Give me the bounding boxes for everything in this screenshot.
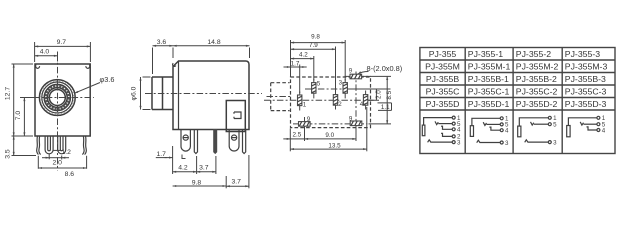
footprint top pads row axis <box>345 75 372 77</box>
svg-text:4: 4 <box>360 101 364 108</box>
side view bevel notch <box>173 63 176 66</box>
schematic 2 tip spring 3 <box>477 140 500 143</box>
svg-text:14.8: 14.8 <box>207 39 220 46</box>
schematic 2 pin 1 terminal <box>500 117 503 120</box>
footprint column axis pad1 <box>299 92 301 111</box>
side view boss contact window <box>234 112 241 119</box>
knurl texture outer <box>41 81 74 114</box>
dim 12.7 extensions <box>12 64 34 136</box>
svg-text:PJ-355B-2: PJ-355B-2 <box>516 74 557 84</box>
schematic 3 pin 5 terminal <box>548 123 551 126</box>
front view top-left corner notch <box>36 65 40 69</box>
side leg D <box>229 130 239 152</box>
schematic 1 pin 1 terminal <box>452 116 455 119</box>
svg-text:12.7: 12.7 <box>4 87 11 100</box>
dim 7.0 extension <box>22 97 39 99</box>
jack bushing ring 2 <box>42 82 73 113</box>
schematic 1 sleeve contact <box>422 125 425 136</box>
svg-text:4.2: 4.2 <box>299 51 308 58</box>
schematic 1 pin 5 terminal <box>452 122 455 125</box>
front leg S left <box>37 136 41 155</box>
footprint column axis pad9 top <box>355 72 357 128</box>
svg-text:φ6.0: φ6.0 <box>131 86 138 100</box>
front view body <box>35 64 90 136</box>
schematic 1 wire to pin 4 <box>441 126 452 129</box>
pad 5 <box>312 83 316 94</box>
svg-text:PJ-355C-1: PJ-355C-1 <box>468 86 510 96</box>
schematic 4 pin 1 terminal <box>597 116 600 119</box>
footprint column axis pad4 <box>365 91 367 110</box>
svg-text:PJ-355-2: PJ-355-2 <box>516 49 551 59</box>
side view body inner edge <box>178 62 180 130</box>
callout 8-(2.0x0.8) leader <box>358 72 369 75</box>
dim 4.0 <box>35 55 58 57</box>
side leg E <box>243 130 246 154</box>
footprint column axis pad9 bottom-left <box>304 117 306 130</box>
schematic 3 sleeve contact <box>518 126 521 137</box>
schematic 1 wire to pin 5 <box>438 123 452 125</box>
footprint center row axis <box>264 99 375 101</box>
schematic 1 switch contact 5 <box>435 121 438 124</box>
svg-text:7.0: 7.0 <box>15 111 22 121</box>
svg-text:5: 5 <box>553 122 557 129</box>
schematic 4 wire to pin 1 <box>568 118 596 126</box>
dim 3.5 extension <box>12 155 37 157</box>
side view boss <box>226 101 245 132</box>
pad 9 bottom-right <box>350 121 362 126</box>
svg-text:4.2: 4.2 <box>178 165 188 172</box>
dim 9.7 <box>35 45 91 47</box>
svg-text:3: 3 <box>339 79 343 86</box>
schematic 3 pin 3 terminal <box>548 141 551 144</box>
callout phi3.6 leader <box>75 83 101 94</box>
schematic 2 switch contact 5 <box>483 122 486 125</box>
svg-text:3: 3 <box>553 139 557 146</box>
schematic 1 pin 4 terminal <box>452 128 455 131</box>
svg-text:5: 5 <box>317 81 321 88</box>
schematic 3 wire to pin 5 <box>534 123 548 125</box>
schematic 2 pin 4 terminal <box>500 129 503 132</box>
pad 1 <box>298 95 302 106</box>
dim 4.2 side <box>196 156 198 174</box>
schematic 2 sleeve contact <box>470 126 473 137</box>
table column lines <box>465 48 562 154</box>
svg-text:2.5: 2.5 <box>293 132 302 139</box>
svg-text:3.7: 3.7 <box>199 165 209 172</box>
dim 8.5 fp <box>386 76 388 124</box>
svg-text:8.6: 8.6 <box>65 171 75 178</box>
schematic 1 pin 3 terminal <box>452 141 455 144</box>
dim 8.6 extensions <box>38 156 86 169</box>
svg-text:13.5: 13.5 <box>328 142 341 149</box>
schematic 3 pin 1 terminal <box>548 116 551 119</box>
dim 3.7 side <box>215 156 217 174</box>
schematic 3 wire to pin 1 <box>519 118 548 126</box>
svg-text:PJ-355D-1: PJ-355D-1 <box>468 99 510 109</box>
svg-text:9: 9 <box>307 116 311 123</box>
svg-text:PJ-355D: PJ-355D <box>426 99 460 109</box>
svg-text:1.7: 1.7 <box>291 61 300 68</box>
schematic 2 wire to pin 4 <box>489 127 500 130</box>
body face extension line <box>172 146 174 174</box>
svg-text:1.2: 1.2 <box>62 149 72 156</box>
svg-text:9.7: 9.7 <box>57 39 67 46</box>
svg-text:PJ-355C-3: PJ-355C-3 <box>565 86 607 96</box>
svg-text:1.1: 1.1 <box>381 104 390 111</box>
side leg A hole <box>183 135 188 140</box>
side leg B <box>194 130 197 154</box>
svg-text:9.8: 9.8 <box>311 34 320 41</box>
knurl texture inner <box>46 86 69 109</box>
table row lines <box>420 60 615 110</box>
schematic 2 pin 3 terminal <box>500 141 503 144</box>
svg-text:8.5: 8.5 <box>386 90 393 99</box>
dim 8.6 <box>38 167 86 169</box>
front leg U1 <box>45 136 53 154</box>
svg-text:4: 4 <box>505 128 509 135</box>
schematic 2 wire to pin 5 <box>487 123 501 125</box>
svg-text:PJ-355-3: PJ-355-3 <box>565 49 600 59</box>
jack bushing outer circle <box>39 80 75 116</box>
dim 12.7 <box>13 64 15 136</box>
svg-text:PJ-355B-1: PJ-355B-1 <box>468 74 509 84</box>
dim 2.0 fp <box>375 89 377 100</box>
dim phi6.0 <box>140 77 142 110</box>
schematic 2 pin 5 terminal <box>500 123 503 126</box>
side leg A <box>181 130 190 152</box>
dim 13.5 fp <box>366 107 368 151</box>
svg-text:PJ-355M-1: PJ-355M-1 <box>468 61 511 71</box>
pad 3 <box>343 83 347 94</box>
front leg S right <box>82 136 86 155</box>
schematic 1 wire to pin 2 <box>441 133 452 136</box>
svg-text:PJ-355D-3: PJ-355D-3 <box>565 99 607 109</box>
svg-text:2.0: 2.0 <box>52 160 62 167</box>
dim 4.0 extension <box>57 52 59 62</box>
footprint barrel axis <box>267 96 292 98</box>
schematic 3 tip spring 3 <box>525 140 549 143</box>
schematic 4 sleeve contact <box>567 126 570 137</box>
dim 7.0 <box>23 98 25 137</box>
svg-text:3.6: 3.6 <box>157 39 167 46</box>
svg-text:PJ-355C-2: PJ-355C-2 <box>516 86 558 96</box>
dim 14.8 <box>173 45 250 47</box>
svg-text:PJ-355B-3: PJ-355B-3 <box>565 74 606 84</box>
dim 3.6 <box>153 45 174 47</box>
table outer border <box>420 48 615 154</box>
schematic 4 pin 5 terminal <box>597 123 600 126</box>
svg-text:9: 9 <box>349 68 353 75</box>
svg-text:2: 2 <box>338 101 342 108</box>
dim 9.7 extension lines <box>35 42 91 62</box>
right extension rows <box>349 76 392 124</box>
schematic 2 wire to pin 1 <box>472 118 500 125</box>
pad 9 bottom-left <box>299 122 311 127</box>
dim 1.7 fp <box>299 65 301 94</box>
dim 9.8 side <box>225 176 227 188</box>
svg-text:9.8: 9.8 <box>192 179 202 186</box>
dim 9.8 fp <box>344 40 346 81</box>
schematic 1 tip spring 3 <box>428 140 453 143</box>
jack bushing ring 3 <box>44 84 70 110</box>
footprint barrel dashed outline <box>271 83 290 111</box>
svg-text:3: 3 <box>457 139 461 146</box>
svg-text:2.0: 2.0 <box>375 90 382 99</box>
svg-text:PJ-355M-2: PJ-355M-2 <box>516 61 559 71</box>
schematic 1 wire to pin 1 <box>424 118 453 126</box>
schematic 4 switch contact 5 <box>580 122 583 125</box>
svg-text:1: 1 <box>303 102 307 109</box>
dim 3.6 extension <box>153 48 174 75</box>
svg-text:8-(2.0x0.8): 8-(2.0x0.8) <box>367 64 403 73</box>
svg-text:4.0: 4.0 <box>40 49 50 56</box>
front leg U2 <box>58 136 66 154</box>
svg-text:7.9: 7.9 <box>309 42 318 49</box>
side view barrel <box>152 77 173 110</box>
pad 4 <box>363 95 367 106</box>
side view body outline <box>173 61 249 130</box>
dim 1.2 <box>53 149 61 151</box>
schematic 1 pin 2 terminal <box>452 135 455 138</box>
footprint column axis pad2 <box>335 91 337 110</box>
dim 2.0 <box>42 157 49 159</box>
svg-text:PJ-355D-2: PJ-355D-2 <box>516 99 558 109</box>
front view horizontal centerline <box>20 97 94 99</box>
schematic 3 switch contact 5 <box>531 122 534 125</box>
footprint column axis pad5 <box>313 79 315 99</box>
svg-text:9: 9 <box>349 115 353 122</box>
svg-text:3.7: 3.7 <box>231 179 241 186</box>
svg-text:φ3.6: φ3.6 <box>100 75 115 84</box>
footprint upper row axis <box>305 88 352 90</box>
svg-text:PJ-355C: PJ-355C <box>426 86 460 96</box>
dim 4.2 fp <box>313 56 315 81</box>
jack hole circle <box>49 90 65 106</box>
svg-text:PJ-355: PJ-355 <box>429 49 457 59</box>
dim phi6.0 extensions <box>143 77 151 110</box>
front view top-right corner notch <box>86 65 90 69</box>
side view centerline <box>145 93 262 95</box>
svg-text:PJ-355B: PJ-355B <box>426 74 460 84</box>
svg-text:4: 4 <box>457 127 461 134</box>
dim 1.1 fp <box>378 103 392 111</box>
footprint body dashed outline <box>291 77 371 128</box>
schematic 4 pin 4 terminal <box>597 129 600 132</box>
svg-text:3.5: 3.5 <box>4 149 11 159</box>
leg A dim tick <box>182 155 186 159</box>
jack bushing ring 4 <box>47 88 67 108</box>
footprint left extension <box>290 40 292 77</box>
schematic 4 wire to pin 4 <box>587 127 597 130</box>
svg-text:PJ-355M: PJ-355M <box>425 61 460 71</box>
side leg D hole <box>232 135 237 140</box>
svg-text:PJ-355M-3: PJ-355M-3 <box>565 61 608 71</box>
side leg C <box>214 130 217 154</box>
front view vertical centerline <box>57 54 59 171</box>
dim 14.8 extension <box>249 48 251 59</box>
footprint column axis pad3 <box>344 79 346 99</box>
svg-text:1.7: 1.7 <box>157 151 167 158</box>
svg-text:9.0: 9.0 <box>325 132 334 139</box>
svg-text:4: 4 <box>602 127 606 134</box>
dim 3.5 <box>13 136 15 156</box>
footprint bottom pads row axis <box>293 123 368 125</box>
svg-text:PJ-355-1: PJ-355-1 <box>468 49 503 59</box>
schematic 4 wire to pin 5 <box>584 123 597 125</box>
dim 7.9 fp <box>335 47 337 93</box>
dim 3.7 right side <box>248 155 250 188</box>
dim 9.0 fp <box>304 127 306 141</box>
pad 2 <box>333 95 337 106</box>
dim 2.0 extensions <box>49 154 62 160</box>
svg-text:3: 3 <box>505 140 509 147</box>
dim 2.5 fp <box>289 129 291 152</box>
pad 9 top <box>350 74 362 79</box>
